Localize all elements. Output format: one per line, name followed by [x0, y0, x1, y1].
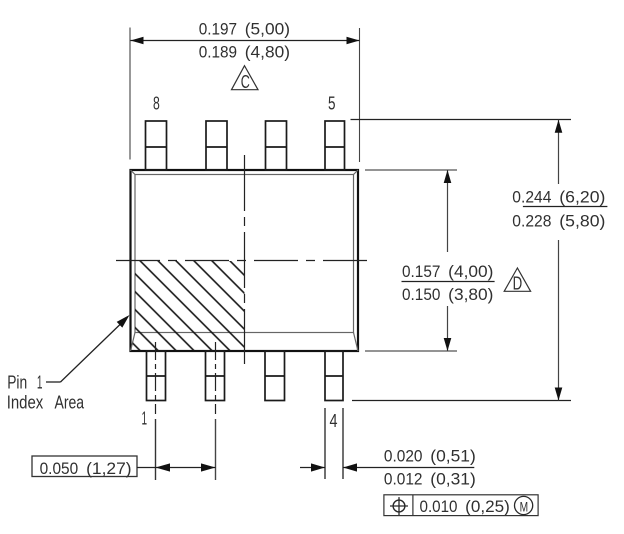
svg-text:Index: Index [7, 391, 44, 412]
dimension 0.020 right arrow line and fraction bar [343, 467, 474, 469]
dimension 0.157/0.150 bottom extension line [365, 350, 457, 352]
dimension 0.157 bottom arrowhead [444, 338, 452, 351]
dimension 0.244 top arrowhead [555, 120, 563, 133]
dimension 0.020 left arrow line [300, 467, 325, 469]
dimension 0.157 fraction bar [402, 281, 495, 283]
pin 1 (bottom) [147, 351, 166, 401]
svg-text:0.228: 0.228 [512, 211, 551, 230]
dimension 0.050 right arrowhead [201, 463, 216, 471]
pin 1 leader line [46, 381, 61, 383]
svg-text:(5,00): (5,00) [245, 20, 290, 39]
svg-text:Pin: Pin [7, 371, 27, 392]
dimension 0.244/0.228 top extension line [351, 119, 572, 121]
package body outer outline [131, 170, 359, 351]
dimension 0.020 right extension line (pin 4 right edge) [342, 408, 344, 479]
dimension 0.244 bottom arrowhead [555, 388, 563, 401]
dimension 0.197/0.189 right extension line [359, 28, 361, 162]
svg-text:0.157: 0.157 [402, 262, 440, 281]
svg-text:M: M [520, 498, 529, 514]
pin 2 (bottom) [206, 351, 225, 401]
svg-text:(4,00): (4,00) [448, 262, 493, 281]
dimension 0.050 leader line [137, 467, 216, 469]
svg-text:C: C [241, 72, 250, 92]
dimension 0.197 left arrowhead [131, 37, 144, 45]
datum triangle D [504, 268, 530, 291]
svg-text:(6,20): (6,20) [559, 187, 605, 206]
pin 1 index area hatching [131, 261, 244, 350]
svg-text:0.012: 0.012 [384, 470, 423, 489]
dimension 0.157/0.150 top extension line [365, 169, 457, 171]
dimension 0.244/0.228 dimension line upper segment [558, 120, 560, 184]
dimension 0.197/0.189 left extension line [129, 28, 131, 160]
svg-text:0.244: 0.244 [512, 187, 551, 206]
svg-text:(0,51): (0,51) [430, 447, 476, 466]
pin 2 extension line below [215, 419, 217, 480]
horizontal body centerline [116, 260, 373, 262]
dimension 0.157/0.150 dimension line upper segment [447, 170, 449, 252]
dimension 0.020 right arrowhead [343, 463, 357, 471]
pin 1 extension line below [155, 419, 157, 480]
dimension 0.244 fraction bar [523, 206, 608, 208]
svg-text:0.150: 0.150 [402, 285, 440, 304]
pin 6 (top) [266, 121, 287, 170]
svg-text:(1,27): (1,27) [86, 459, 132, 478]
dimension 0.020 left arrowhead [311, 463, 325, 471]
body corner chamfer top-right [354, 170, 359, 175]
body corner chamfer top-left [131, 170, 136, 175]
true position symbol [393, 500, 405, 512]
svg-text:1: 1 [142, 408, 148, 429]
pin 2 centerline [215, 342, 217, 414]
pin 8 (top) [146, 121, 167, 170]
dimension 0.197 right arrowhead [347, 37, 360, 45]
svg-text:(0,31): (0,31) [430, 470, 476, 489]
svg-text:(5,80): (5,80) [559, 211, 605, 230]
vertical body centerline [244, 155, 246, 364]
svg-text:0.020: 0.020 [384, 447, 423, 466]
body corner chamfer bottom-left [131, 333, 136, 352]
dimension 0.157 top arrowhead [444, 170, 452, 183]
svg-text:0.189: 0.189 [199, 43, 237, 62]
svg-text:(3,80): (3,80) [448, 285, 493, 304]
dimension 0.020 left extension line (pin 4 left edge) [324, 408, 326, 479]
datum triangle C [232, 66, 259, 90]
svg-text:0.010: 0.010 [420, 497, 458, 516]
svg-text:4: 4 [330, 410, 338, 431]
svg-text:5: 5 [328, 92, 336, 113]
pin 1 centerline [155, 342, 157, 414]
svg-text:D: D [513, 274, 523, 294]
pin 4 (bottom) [325, 351, 343, 401]
pin 3 (bottom) [265, 351, 285, 401]
dimension 0.050 left arrowhead [156, 463, 171, 471]
dimension 0.244/0.228 dimension line lower segment [558, 240, 560, 401]
svg-text:(0,25): (0,25) [465, 497, 510, 516]
dimension 0.157/0.150 dimension line lower segment [447, 306, 449, 351]
svg-text:1: 1 [37, 371, 43, 392]
body corner chamfer bottom-right [354, 333, 359, 352]
pin 5 (top) [325, 121, 345, 170]
package body inner (mold) outline [135, 175, 354, 333]
dimension 0.244/0.228 bottom extension line [352, 400, 571, 402]
svg-text:Area: Area [55, 391, 85, 412]
feature control frame box [384, 495, 538, 516]
pin 7 (top) [206, 121, 227, 170]
svg-text:8: 8 [153, 92, 160, 113]
svg-text:(4,80): (4,80) [245, 43, 290, 62]
dimension 0.197/0.189 dimension line with fraction bar [131, 40, 360, 42]
svg-text:0.050: 0.050 [40, 459, 79, 478]
pin 1 leader arrowhead [117, 315, 130, 328]
dimension 0.050 (1,27) box [32, 456, 137, 477]
MMC modifier symbol [515, 496, 533, 514]
svg-text:0.197: 0.197 [199, 20, 237, 39]
